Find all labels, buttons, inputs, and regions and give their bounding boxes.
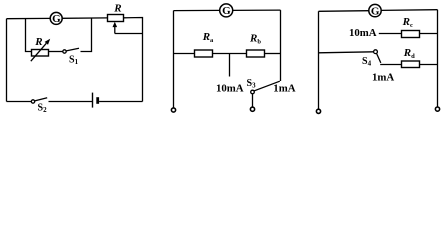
galvanometer G2: [220, 4, 233, 17]
wire S1 to shunt branch right vertical, up to top wire: [81, 19, 92, 52]
galvanometer G1: [50, 12, 62, 24]
svg-text:1mA: 1mA: [273, 83, 295, 95]
top wire left segment: [174, 9, 220, 11]
wire Rc to right edge: [420, 33, 438, 35]
right edge down to terminal: [437, 10, 439, 107]
switch S3 pivot: [251, 90, 255, 94]
svg-text:R: R: [113, 2, 121, 14]
rheostat R body: [108, 15, 124, 22]
terminal post bottom-left: [316, 109, 320, 113]
wire wiper to right edge: [115, 33, 143, 35]
svg-text:G: G: [371, 5, 380, 17]
wire G to rheostat R: [62, 17, 107, 19]
battery short thick plate: [96, 97, 99, 104]
switch S4 pivot: [374, 50, 378, 54]
top wire left segment: [319, 10, 369, 13]
switch S2 pivot: [31, 100, 34, 103]
left edge: [6, 19, 8, 102]
shunt branch left vertical and corner: [26, 19, 32, 52]
switch S1 pivot: [63, 50, 66, 53]
left edge down to terminal: [318, 11, 320, 109]
switch S3 lever: [254, 81, 280, 91]
wire battery to bottom-right corner: [99, 101, 142, 103]
rail wire Ra to Rb: [213, 53, 247, 55]
switch S2 lever: [35, 98, 48, 101]
wire R' to switch S1: [49, 51, 63, 53]
wire rheostat to top-right corner, right edge down: [124, 18, 143, 102]
wire S3 pivot down to terminal: [252, 94, 254, 107]
resistor Rd body: [402, 61, 420, 68]
bottom wire to switch S2: [7, 101, 32, 103]
resistor Rc body: [402, 31, 420, 38]
svg-text:10mA: 10mA: [216, 82, 244, 94]
svg-text:G: G: [52, 13, 61, 25]
left edge down to terminal: [173, 11, 175, 108]
top wire right segment: [233, 9, 281, 11]
svg-text:10mA: 10mA: [349, 27, 377, 39]
switch S1 lever: [66, 48, 79, 51]
switch S4 lever: [377, 54, 381, 63]
galvanometer G3: [369, 4, 381, 16]
wire top-left to galvanometer: [7, 17, 51, 19]
10mA rail wire to Rc: [379, 33, 402, 35]
variable resistor R' body: [32, 50, 49, 57]
Rd rail wire: [380, 64, 401, 66]
terminal post bottom-right: [435, 107, 439, 111]
svg-text:R: R: [34, 36, 42, 48]
wire S2 to battery: [49, 101, 93, 103]
svg-text:1mA: 1mA: [372, 71, 394, 83]
right edge down to 1mA contact: [280, 10, 282, 81]
10mA contact stub from Ra/Rb junction: [229, 54, 231, 77]
resistor Rb body: [247, 50, 265, 57]
resistor Ra body: [195, 50, 213, 57]
battery long thin plate: [92, 93, 94, 108]
terminal post bottom-middle: [250, 107, 254, 111]
wire Rd to right edge: [420, 64, 438, 66]
variable resistor R' diagonal arrow: [31, 43, 47, 61]
rheostat R wiper arrow: [114, 24, 116, 33]
S4 rail from left edge: [319, 52, 374, 53]
svg-text:G: G: [222, 5, 231, 17]
terminal post bottom-left: [171, 108, 175, 112]
rail wire Rb to right edge: [265, 53, 281, 55]
rail wire to Ra: [174, 53, 195, 55]
top wire right segment: [381, 9, 437, 12]
